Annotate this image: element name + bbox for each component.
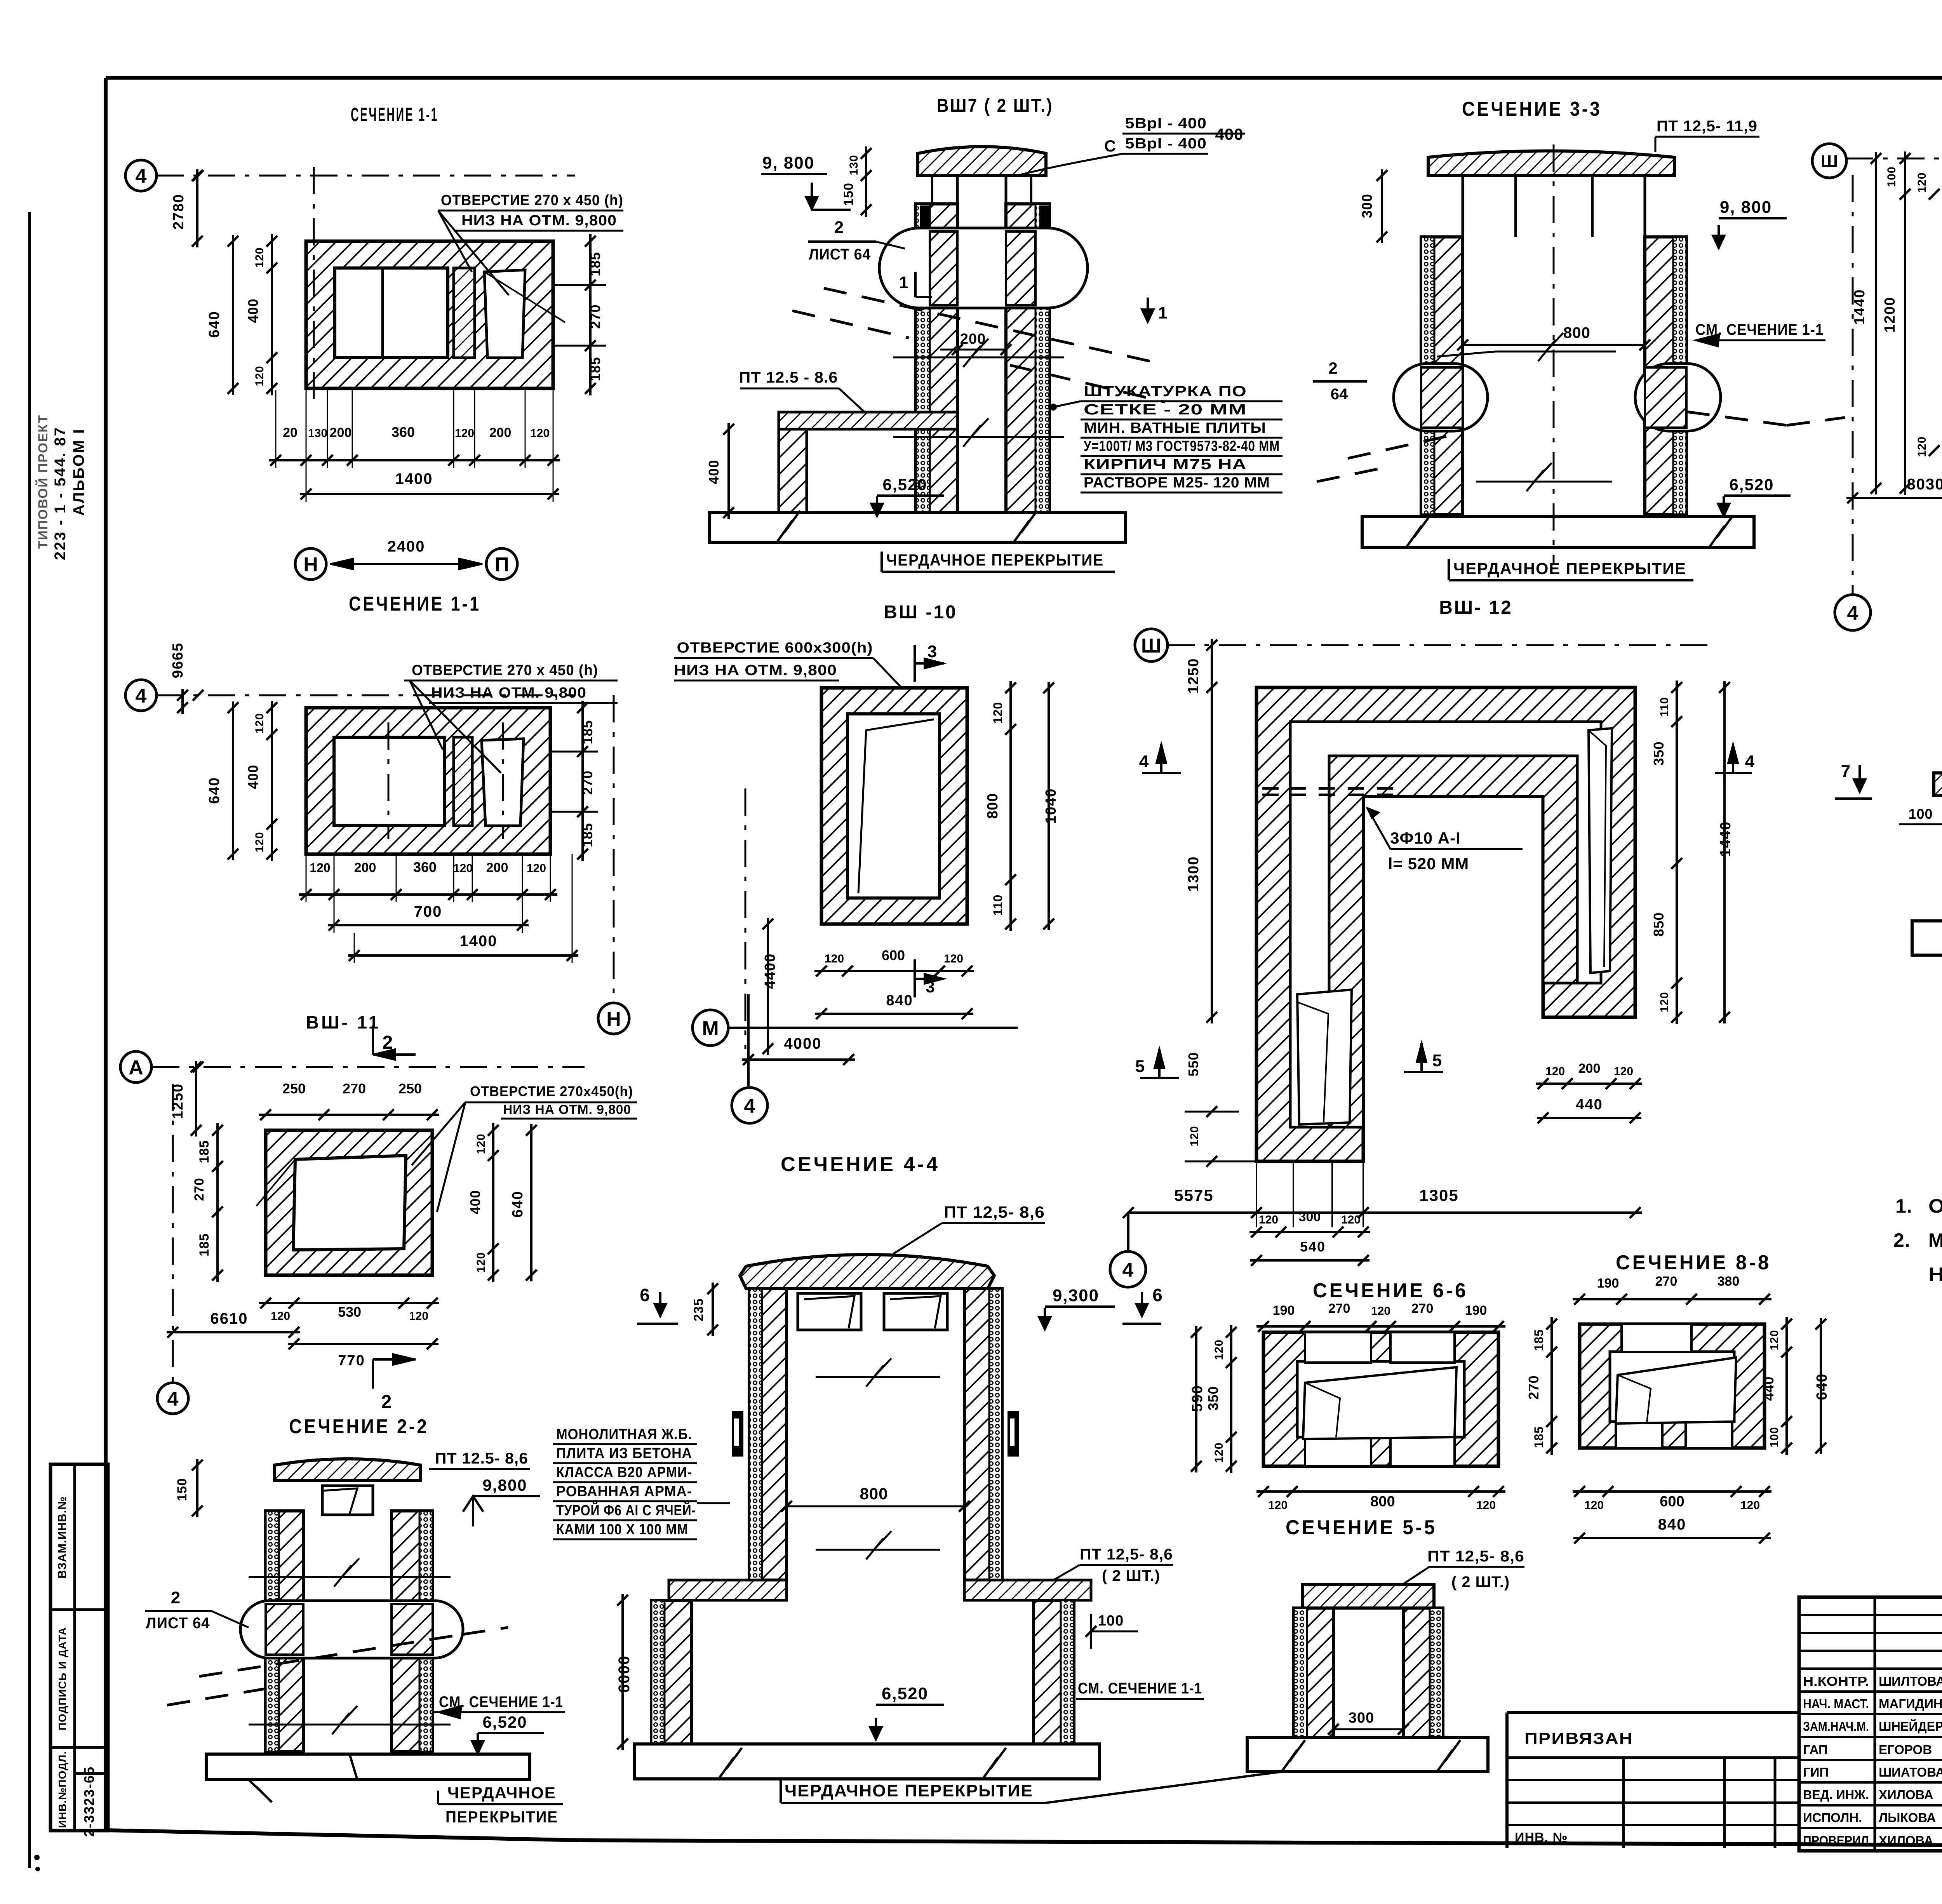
svg-text:1305: 1305 [1419,1186,1458,1204]
svg-text:СЕЧЕНИЕ 3-3: СЕЧЕНИЕ 3-3 [1462,98,1602,120]
svg-text:РАСТВОРЕ М25- 120 ММ: РАСТВОРЕ М25- 120 ММ [1084,475,1270,491]
8-8 top white slot [1622,1324,1691,1352]
svg-text:185: 185 [1532,1329,1546,1351]
dim 8030 [1846,497,1942,499]
6-6 bottom dims [1256,1490,1505,1493]
section 1-1(2) inner opening [334,737,445,826]
svg-text:5: 5 [1432,1051,1442,1070]
2-2 flue lines [302,1511,305,1752]
svg-text:360: 360 [392,424,415,440]
vertical axis line to Н circle [613,695,615,1002]
svg-text:РОВАННАЯ АРМА-: РОВАННАЯ АРМА- [556,1483,692,1500]
svg-text:СЕЧЕНИЕ 6-6: СЕЧЕНИЕ 6-6 [1313,1279,1468,1302]
8-8 bottom dims [1573,1490,1771,1493]
section 2-2 cap slab [275,1459,420,1481]
svg-text:120: 120 [1341,1213,1361,1226]
3-3 break lines [1495,351,1616,353]
svg-text:ВШ- 12: ВШ- 12 [1439,597,1513,618]
8-8 plan hatched ring [1580,1324,1765,1448]
svg-text:ПТ 12,5- 8,6: ПТ 12,5- 8,6 [1427,1548,1524,1565]
ВШ7 column top anchors [920,205,929,239]
section marks 6 [659,1292,661,1317]
svg-text:120: 120 [1584,1499,1604,1512]
dim 150 [196,1459,198,1517]
axis circle 4 [125,160,157,191]
section 1-1 internal hatched pier [454,268,475,358]
svg-text:270: 270 [343,1081,366,1096]
svg-text:130: 130 [847,155,860,175]
2-2 break lines across flue [249,1576,451,1578]
6-6 plan hatched ring [1263,1332,1498,1466]
svg-text:Ш: Ш [1821,152,1838,171]
svg-text:120: 120 [1658,992,1671,1012]
axis line horizontal [157,175,575,177]
svg-text:( 2 ШТ.): ( 2 ШТ.) [1451,1573,1510,1591]
dim 1250 (А axis) [195,1061,197,1136]
svg-text:800: 800 [1370,1493,1395,1510]
ВШ-12 outer П wall [1256,687,1635,1161]
svg-text:300: 300 [1299,1210,1321,1224]
section 1-1 right duct opening [484,270,525,358]
svg-text:190: 190 [1465,1303,1487,1318]
svg-text:Н: Н [303,553,318,576]
svg-text:ВШ7 ( 2 ШТ.): ВШ7 ( 2 ШТ.) [937,96,1053,116]
svg-text:120: 120 [475,1252,487,1272]
2-2 left column [266,1511,303,1752]
section 1-1 plan inner opening [335,268,448,358]
svg-text:5ВрI - 400: 5ВрI - 400 [1125,115,1207,132]
axis circle А [120,1051,151,1083]
dim 400 (вш7) [727,423,730,519]
ВШ-13 mid slab [1934,773,1942,795]
svg-text:5ВрI - 400: 5ВрI - 400 [1125,136,1207,152]
svg-text:ПТ 12.5 - 8.6: ПТ 12.5 - 8.6 [739,369,838,386]
svg-text:360: 360 [413,859,437,875]
svg-text:НАЧ. МАСТ.: НАЧ. МАСТ. [1803,1697,1869,1711]
svg-text:ГИП: ГИП [1803,1765,1829,1779]
svg-text:600: 600 [882,947,905,963]
svg-text:6,520: 6,520 [1729,475,1774,494]
svg-text:64: 64 [1331,386,1348,403]
svg-text:l= 520 ММ: l= 520 ММ [1388,855,1469,873]
svg-text:ВЕД. ИНЖ.: ВЕД. ИНЖ. [1803,1787,1869,1802]
svg-text:ИНВ. №: ИНВ. № [1515,1830,1568,1845]
svg-text:ГАП: ГАП [1803,1742,1828,1757]
break marks flue (вш7) [893,357,1064,359]
svg-text:1440: 1440 [1718,821,1734,857]
svg-text:640: 640 [206,777,223,804]
axis line vertical (7-7) [1852,175,1854,595]
svg-text:120: 120 [1213,1442,1225,1463]
svg-text:ЧЕРДАЧНОЕ ПЕРЕКРЫТИЕ: ЧЕРДАЧНОЕ ПЕРЕКРЫТИЕ [1453,559,1686,578]
svg-text:ТИПОВОЙ ПРОЕКТ: ТИПОВОЙ ПРОЕКТ [35,414,50,549]
sheet frame border [106,76,1942,80]
svg-text:4000: 4000 [784,1035,822,1052]
svg-text:ПРОВЕРИЛ: ПРОВЕРИЛ [1803,1833,1869,1848]
svg-text:150: 150 [175,1478,190,1501]
4-4 bottom slab [634,1744,1100,1779]
8-8 left dims [1550,1317,1553,1455]
svg-text:4: 4 [1745,752,1755,771]
svg-text:У=100Т/ М3 ГОСТ9573-82-40 ММ: У=100Т/ М3 ГОСТ9573-82-40 ММ [1084,438,1280,454]
dim 840 [815,1013,973,1015]
axis circle 4 (вш12 bottom) [1110,1251,1146,1287]
dim 1400 [300,493,559,495]
svg-text:4400: 4400 [762,953,778,989]
section 1-1(2) plan outer hatched wall [306,708,550,854]
svg-text:120: 120 [530,427,550,440]
dim 2400 between axes Н and П [330,563,482,565]
ВШ-10 plan hatched wall [821,688,967,924]
witness lines bottom chains (plan 1) [275,390,277,468]
4-4 walls below [651,1600,692,1744]
3-3 right column [1645,237,1686,514]
5-5 bottom slab [1247,1737,1488,1772]
svg-text:СЕЧЕНИЕ 1-1: СЕЧЕНИЕ 1-1 [349,593,481,615]
svg-text:3: 3 [927,642,937,661]
title block name table [1799,1597,1942,1851]
svg-text:4: 4 [1847,602,1858,625]
svg-text:ОТВЕРСТИЕ 270 х 450 (h): ОТВЕРСТИЕ 270 х 450 (h) [412,662,598,679]
svg-text:1: 1 [1158,303,1168,322]
svg-text:6: 6 [1152,1285,1162,1305]
svg-text:МИН. ВАТНЫЕ ПЛИТЫ: МИН. ВАТНЫЕ ПЛИТЫ [1084,420,1266,436]
axis circle Н (7-7) [1812,144,1846,178]
svg-text:1040: 1040 [1043,788,1059,824]
svg-text:6,520: 6,520 [882,475,927,494]
ВШ7 left column [916,204,957,513]
6-6 bottom white slots [1305,1437,1371,1466]
svg-text:ХИЛОВА: ХИЛОВА [1879,1787,1933,1802]
6-6 left dims [1230,1325,1232,1473]
svg-text:АЛЬБОМ I: АЛЬБОМ I [70,428,87,516]
svg-text:640: 640 [206,311,223,338]
привязан box [1507,1711,1799,1714]
axis circle 4 (7-7 bottom) [1835,595,1871,630]
ВШ7 neck verticals [931,176,933,204]
svg-text:235: 235 [691,1298,706,1321]
4-4 break lines lower [816,1549,940,1551]
svg-text:770: 770 [338,1352,365,1369]
svg-text:4: 4 [1122,1259,1134,1281]
svg-text:120: 120 [1740,1499,1760,1512]
svg-text:ВЗАМ.ИНВ.№: ВЗАМ.ИНВ.№ [56,1496,69,1579]
svg-text:250: 250 [398,1081,422,1096]
svg-text:ПОДПИСЬ И ДАТА: ПОДПИСЬ И ДАТА [56,1627,68,1730]
svg-text:2780: 2780 [171,194,187,230]
axis circle М [693,1010,728,1046]
svg-text:20: 20 [283,425,298,440]
right dims (second plan) 185/270/185 [581,701,584,861]
svg-text:120: 120 [1545,1065,1565,1078]
svg-text:100: 100 [1768,1427,1781,1447]
svg-text:6000: 6000 [616,1655,633,1693]
section 3-3 cap slab [1428,151,1674,176]
section mark 1 right [1147,298,1149,322]
ВШ-10 inner opening [847,714,940,898]
svg-text:800: 800 [985,793,1001,819]
svg-text:ПЕРЕКРЫТИЕ: ПЕРЕКРЫТИЕ [445,1808,558,1826]
svg-text:200: 200 [354,860,376,875]
dim 235 (4-4) [712,1283,714,1336]
svg-text:190: 190 [1273,1303,1295,1318]
left sidebar table [50,1464,108,1831]
svg-text:6,520: 6,520 [482,1713,527,1731]
svg-text:6: 6 [640,1285,650,1305]
axis circle Н [295,548,326,580]
axis circle 4 (second) [125,680,157,711]
ВШ-12 inner second wall [1329,756,1577,1127]
svg-text:Н.КОНТР.: Н.КОНТР. [1803,1674,1869,1688]
svg-text:1: 1 [899,273,908,292]
8-8 right dims [1785,1317,1788,1455]
svg-text:Н: Н [606,1008,621,1030]
svg-text:120: 120 [1213,1339,1225,1360]
left dims (second plan) [271,701,273,861]
dim 700 [328,924,529,926]
dim 9665 [181,689,184,714]
svg-text:КЛАССА В20 АРМИ-: КЛАССА В20 АРМИ- [556,1464,692,1481]
bottom chain (second) 120/200/360/120/200/120 [299,893,557,896]
ВШ-11 bottom dims [259,1302,439,1304]
svg-text:ИНВ.№ПОДЛ.: ИНВ.№ПОДЛ. [56,1751,68,1828]
4-4 break lines upper [816,1376,940,1378]
svg-text:ВШ- 11: ВШ- 11 [306,1012,381,1032]
svg-text:СЕЧЕНИЕ 8-8: СЕЧЕНИЕ 8-8 [1616,1251,1771,1274]
svg-text:100: 100 [1098,1613,1124,1629]
svg-text:540: 540 [1300,1239,1326,1255]
axis circle Ш (вш12) [1135,629,1168,661]
svg-text:1.: 1. [1895,1195,1912,1217]
svg-text:840: 840 [1658,1516,1686,1533]
dims 150/130 (вш7) [865,146,867,217]
svg-text:120: 120 [1768,1330,1781,1350]
svg-text:4: 4 [1139,752,1149,771]
svg-text:СЕТКЕ - 20 ММ: СЕТКЕ - 20 ММ [1084,402,1247,418]
svg-text:185: 185 [197,1140,212,1163]
ВШ-12 window right leg [1589,728,1612,973]
svg-text:ПРИВЯЗАН: ПРИВЯЗАН [1524,1729,1633,1747]
vertical centerline [313,167,315,406]
svg-text:МАТЕРИАЛЫ И ИЗДЕЛИЯ УЧТЕНЫ: МАТЕРИАЛЫ И ИЗДЕЛИЯ УЧТЕНЫ В СПЕЦИФИКАЦИ… [1928,1229,1942,1251]
svg-text:380: 380 [1718,1274,1740,1289]
svg-text:200: 200 [330,425,352,440]
2-2 bottom slab [206,1754,530,1780]
ВШ-10 right dims [1009,681,1012,931]
2-2 insulation cloud [240,1601,463,1658]
svg-text:640: 640 [1814,1373,1830,1400]
ВШ-11 top dim chain 250/270/250 [259,1114,439,1116]
svg-text:9, 800: 9, 800 [1720,198,1772,217]
svg-text:2: 2 [1328,359,1337,377]
svg-text:7: 7 [1841,762,1850,781]
svg-text:110: 110 [991,895,1005,916]
svg-text:190: 190 [1597,1276,1619,1291]
dim 4000 [742,1058,855,1061]
svg-text:СМ. СЕЧЕНИЕ 1-1: СМ. СЕЧЕНИЕ 1-1 [1078,1680,1202,1697]
6-6 inner duct quad [1303,1367,1456,1439]
svg-text:800: 800 [860,1485,888,1503]
sheet outer scan edge left [28,212,31,1868]
svg-text:КАМИ 100 Х 100 ММ: КАМИ 100 Х 100 ММ [556,1521,688,1538]
svg-text:400: 400 [467,1190,483,1214]
8-8 bottom white slots [1616,1422,1662,1448]
svg-text:200: 200 [1578,1061,1601,1076]
ВШ7 cap slab [918,147,1046,176]
svg-text:ЛИСТ 64: ЛИСТ 64 [809,246,871,263]
svg-text:250: 250 [282,1081,306,1096]
ВШ-12 inner band white [1290,722,1601,1127]
section marks 7 [1858,765,1861,792]
3-3 bottom slab [1362,517,1754,548]
svg-text:2-3323-65: 2-3323-65 [81,1766,97,1837]
svg-text:4: 4 [136,685,147,707]
svg-text:270: 270 [1655,1274,1677,1289]
svg-text:НИЗ НА ОТМ. 9,800: НИЗ НА ОТМ. 9,800 [503,1102,631,1117]
svg-text:Ш: Ш [1141,635,1161,657]
scan specks bottom left [34,1855,40,1860]
8-8 inner white [1610,1352,1734,1422]
svg-text:440: 440 [1761,1376,1777,1401]
svg-text:270: 270 [192,1178,207,1201]
2-2 top small opening [322,1486,373,1515]
svg-text:4: 4 [136,165,147,188]
svg-text:120: 120 [944,952,963,965]
section 1-1(2) internal pier [454,737,472,826]
svg-text:120: 120 [475,1133,487,1154]
svg-text:КИРПИЧ М75 НА: КИРПИЧ М75 НА [1084,456,1247,473]
svg-text:ШТУКАТУРКА ПО: ШТУКАТУРКА ПО [1084,383,1247,400]
svg-text:120: 120 [253,832,266,852]
svg-text:440: 440 [1576,1096,1603,1113]
svg-text:185: 185 [587,252,603,276]
svg-text:270: 270 [1411,1301,1434,1316]
svg-text:ЛЫКОВА: ЛЫКОВА [1879,1810,1936,1825]
svg-text:СЕЧЕНИЕ 4-4: СЕЧЕНИЕ 4-4 [781,1153,940,1176]
svg-text:850: 850 [1651,912,1667,936]
4-4 mid slabs [669,1580,787,1600]
svg-text:ЕГОРОВ: ЕГОРОВ [1879,1742,1932,1757]
svg-text:ЗАМ.НАЧ.М.: ЗАМ.НАЧ.М. [1803,1719,1869,1733]
svg-text:( 2 ШТ.): ( 2 ШТ.) [1102,1567,1160,1584]
svg-text:А: А [129,1056,143,1079]
dim 6000 rotated [621,1594,624,1750]
svg-text:НА ЛИСТЕ 62.: НА ЛИСТЕ 62. [1928,1264,1942,1285]
svg-text:М: М [702,1017,719,1040]
3-3 left column [1421,237,1463,514]
svg-text:300: 300 [1359,193,1375,218]
svg-text:СЕЧЕНИЕ 5-5: СЕЧЕНИЕ 5-5 [1286,1516,1437,1539]
2-2 right column [392,1511,433,1752]
svg-text:ШНЕЙДЕРМАН: ШНЕЙДЕРМАН [1879,1719,1942,1733]
svg-text:600: 600 [1660,1493,1684,1510]
ВШ-12 rebar marks [1262,787,1279,790]
svg-text:223 - 1 - 544. 87: 223 - 1 - 544. 87 [52,426,69,560]
5-5 columns [1294,1608,1333,1737]
ВШ-10 bottom dims [814,970,974,972]
svg-text:270: 270 [579,770,595,795]
svg-text:185: 185 [579,720,595,744]
4-4 top windows [798,1293,861,1330]
svg-text:1400: 1400 [395,470,433,487]
svg-text:2: 2 [381,1392,392,1412]
svg-text:ТУРОЙ Ф6 АI С ЯЧЕЙ-: ТУРОЙ Ф6 АI С ЯЧЕЙ- [556,1501,696,1519]
svg-text:СЕЧЕНИЕ 1-1: СЕЧЕНИЕ 1-1 [351,104,439,125]
svg-text:120: 120 [253,713,266,733]
svg-text:840: 840 [886,992,913,1009]
ВШ7 bottom slab [710,513,1126,542]
3-3 flue verticals [1462,176,1464,514]
svg-text:6610: 6610 [211,1310,248,1327]
svg-text:НИЗ НА ОТМ. 9,800: НИЗ НА ОТМ. 9,800 [431,685,586,701]
left dim chain 120/400/120 [271,234,273,395]
svg-text:400: 400 [245,298,261,323]
7-7 dims left [1904,151,1906,495]
svg-text:100: 100 [1908,806,1933,822]
8-8 inner duct quad [1616,1358,1736,1424]
svg-text:120: 120 [455,427,474,440]
svg-text:9,300: 9,300 [1053,1286,1099,1305]
section 1-1 plan outer hatched wall [306,241,553,388]
svg-text:ПТ 12,5- 8,6: ПТ 12,5- 8,6 [944,1203,1045,1221]
svg-text:120: 120 [1188,1126,1201,1146]
svg-text:ПТ 12,5- 11,9: ПТ 12,5- 11,9 [1657,118,1758,135]
axis circle 4 (вш-11) [157,1383,188,1414]
ВШ-11 plan hatched wall [266,1130,432,1275]
svg-text:1440: 1440 [1852,289,1868,325]
section marker 2 bottom [373,1358,416,1361]
svg-text:120: 120 [991,702,1005,724]
svg-text:400: 400 [245,764,261,789]
ВШ7 flue edge lines [956,176,959,513]
4-4 handles [732,1411,743,1457]
svg-text:МАГИДИН: МАГИДИН [1879,1697,1942,1711]
svg-text:ОТВЕРСТИЕ 270 х 450 (h): ОТВЕРСТИЕ 270 х 450 (h) [441,192,623,209]
dim 300 (3-3) [1381,169,1383,243]
svg-text:ПЛИТА ИЗ БЕТОНА: ПЛИТА ИЗ БЕТОНА [556,1445,692,1462]
4-4 shaft walls [749,1289,787,1580]
svg-text:С: С [1104,137,1116,155]
svg-text:5575: 5575 [1174,1186,1213,1204]
svg-text:150: 150 [841,183,856,206]
svg-text:2: 2 [834,218,844,237]
svg-text:185: 185 [587,357,603,381]
6-6 inner white [1297,1361,1464,1437]
dim 4400 rotated [767,918,769,1055]
svg-text:185: 185 [1532,1426,1546,1448]
svg-text:100: 100 [1885,166,1898,187]
svg-text:120: 120 [1614,1065,1633,1078]
ВШ-12 bottom-right chain 120/200/120 + 440 [1536,1083,1642,1085]
svg-text:120: 120 [527,862,546,875]
axis circle 4 (вш10) [732,1088,767,1123]
witness lines bottom chains (plan 2) [306,856,307,902]
svg-text:ОТВЕРСТИЕ 270х450(h): ОТВЕРСТИЕ 270х450(h) [470,1083,633,1099]
svg-text:270: 270 [1328,1301,1350,1316]
4-4 cap slab [740,1255,994,1289]
svg-text:ЧЕРДАЧНОЕ: ЧЕРДАЧНОЕ [447,1784,556,1802]
ВШ7 wall below slab [779,429,807,513]
svg-text:110: 110 [1658,697,1671,717]
svg-text:8030: 8030 [1907,476,1942,493]
svg-text:ШИЛТОВА: ШИЛТОВА [1879,1674,1942,1688]
svg-text:1250: 1250 [1185,658,1202,694]
3-3 roof dashed [1348,435,1453,458]
ВШ7 insulation cloud [879,228,1088,308]
svg-text:ПТ 12,5- 8,6: ПТ 12,5- 8,6 [1080,1546,1173,1563]
svg-text:350: 350 [1205,1386,1221,1410]
svg-text:130: 130 [308,427,327,440]
